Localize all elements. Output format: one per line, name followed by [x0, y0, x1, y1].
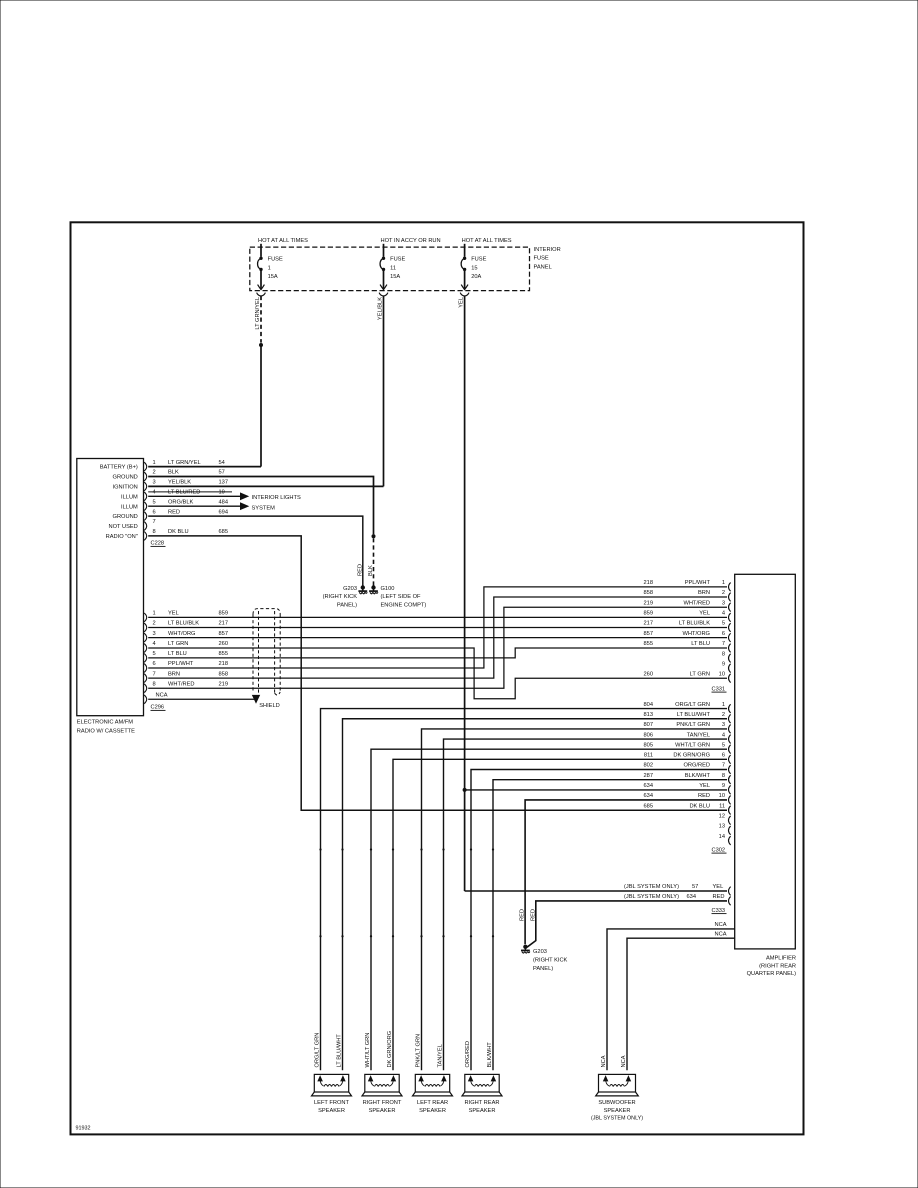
- svg-text:9: 9: [722, 661, 725, 667]
- svg-text:685: 685: [219, 529, 229, 535]
- svg-text:AMPLIFIER: AMPLIFIER: [766, 956, 796, 962]
- wire pin3 YEL/BLK 137: [148, 485, 383, 487]
- svg-text:813: 813: [644, 712, 654, 718]
- svg-text:484: 484: [219, 499, 229, 505]
- svg-text:8: 8: [722, 773, 725, 779]
- radio C228 pin 5: [144, 499, 228, 510]
- connector label C302: [712, 847, 727, 853]
- svg-text:(JBL SYSTEM ONLY): (JBL SYSTEM ONLY): [624, 884, 679, 890]
- svg-text:LT GRN: LT GRN: [690, 671, 710, 677]
- wire 807 PNK/LT GRN to left rear speaker +: [422, 729, 728, 1070]
- svg-text:15A: 15A: [268, 274, 278, 280]
- svg-text:RIGHT REAR: RIGHT REAR: [465, 1100, 500, 1106]
- svg-text:7: 7: [153, 671, 156, 677]
- connector label C331: [712, 686, 727, 692]
- svg-text:217: 217: [644, 621, 654, 627]
- svg-text:634: 634: [687, 894, 697, 900]
- svg-text:20A: 20A: [471, 274, 481, 280]
- svg-text:11: 11: [719, 803, 725, 809]
- amp C302 pin 3: [644, 722, 731, 733]
- svg-text:QUARTER PANEL): QUARTER PANEL): [747, 971, 797, 977]
- svg-text:11: 11: [390, 265, 396, 271]
- wire NCA to subwoofer +: [607, 929, 735, 1070]
- right front speaker: [362, 1071, 402, 1096]
- svg-text:C296: C296: [151, 705, 165, 711]
- svg-text:C302: C302: [712, 847, 726, 853]
- svg-text:855: 855: [644, 641, 654, 647]
- svg-text:57: 57: [219, 470, 225, 476]
- svg-text:4: 4: [722, 611, 725, 617]
- svg-text:HOT AT ALL TIMES: HOT AT ALL TIMES: [258, 238, 308, 244]
- svg-text:1: 1: [153, 611, 156, 617]
- ground G100: [369, 585, 378, 594]
- amp C302 pin 9: [644, 783, 731, 794]
- svg-text:6: 6: [722, 753, 725, 759]
- svg-text:260: 260: [219, 641, 229, 647]
- svg-text:7: 7: [722, 641, 725, 647]
- interior lights system label: [252, 495, 302, 511]
- amp C302 pin 5: [644, 742, 731, 753]
- amp C302 pin 12: [719, 813, 731, 824]
- wire 811 DK GRN/ORG to right front speaker -: [393, 759, 727, 1070]
- svg-text:ORG/LT GRN: ORG/LT GRN: [675, 702, 710, 708]
- svg-text:2: 2: [153, 470, 156, 476]
- wire pin5 ORG/BLK 484: [148, 503, 248, 509]
- svg-text:(JBL SYSTEM ONLY): (JBL SYSTEM ONLY): [624, 894, 679, 900]
- svg-text:LT GRN: LT GRN: [168, 641, 188, 647]
- svg-text:ILLUM: ILLUM: [121, 494, 138, 500]
- splice YEL to amp C302 pin 9: [463, 788, 467, 792]
- svg-text:SYSTEM: SYSTEM: [252, 505, 276, 511]
- svg-text:GROUND: GROUND: [113, 475, 138, 481]
- svg-text:218: 218: [219, 661, 229, 667]
- svg-text:RED: RED: [530, 909, 536, 921]
- amp C321 pin 6: [644, 631, 731, 642]
- svg-text:RED: RED: [698, 793, 710, 799]
- svg-text:ENGINE COMPT): ENGINE COMPT): [381, 603, 427, 609]
- svg-text:SHIELD: SHIELD: [259, 703, 280, 709]
- svg-text:634: 634: [644, 793, 654, 799]
- svg-text:ORG/LT GRN: ORG/LT GRN: [315, 1033, 321, 1068]
- wire NCA to shield: [148, 698, 256, 700]
- svg-text:7: 7: [153, 519, 156, 525]
- svg-text:12: 12: [719, 813, 725, 819]
- svg-text:137: 137: [219, 480, 229, 486]
- svg-text:FUSE: FUSE: [268, 257, 283, 263]
- svg-text:8: 8: [153, 681, 156, 687]
- svg-text:(LEFT SIDE OF: (LEFT SIDE OF: [381, 594, 422, 600]
- amp C333 pin YEL (JBL SYSTEM ONLY): [624, 884, 731, 895]
- svg-text:6: 6: [153, 509, 156, 515]
- svg-text:3: 3: [153, 631, 156, 637]
- svg-text:RIGHT FRONT: RIGHT FRONT: [363, 1100, 402, 1106]
- svg-text:LT BLU: LT BLU: [691, 641, 710, 647]
- wire 857 WHT/ORG radio3 to amp C321-6: [148, 637, 727, 639]
- svg-text:685: 685: [644, 803, 654, 809]
- svg-text:RADIO "ON": RADIO "ON": [106, 534, 138, 540]
- svg-text:LT GRN/YEL: LT GRN/YEL: [168, 460, 201, 466]
- svg-text:SPEAKER: SPEAKER: [369, 1108, 396, 1114]
- svg-text:5: 5: [153, 499, 156, 505]
- svg-text:1: 1: [722, 702, 725, 708]
- svg-text:WHT/LT GRN: WHT/LT GRN: [675, 742, 710, 748]
- connector label C333: [712, 908, 727, 914]
- svg-text:1: 1: [722, 580, 725, 586]
- svg-text:NCA: NCA: [601, 1055, 607, 1067]
- svg-text:YEL: YEL: [458, 297, 464, 308]
- svg-text:3: 3: [722, 722, 725, 728]
- radio label: [77, 720, 135, 735]
- svg-text:7: 7: [722, 763, 725, 769]
- svg-text:BLK/WHT: BLK/WHT: [685, 773, 711, 779]
- svg-text:54: 54: [219, 460, 225, 466]
- svg-text:DK GRN/ORG: DK GRN/ORG: [673, 753, 710, 759]
- wire 859 YEL radio1 to amp C321-4: [148, 616, 727, 618]
- amp C321 pin 3: [644, 600, 731, 611]
- svg-text:14: 14: [719, 834, 725, 840]
- svg-text:857: 857: [644, 631, 654, 637]
- wire NCA to subwoofer -: [627, 938, 735, 1070]
- svg-text:91932: 91932: [76, 1126, 91, 1132]
- svg-text:LEFT REAR: LEFT REAR: [417, 1100, 448, 1106]
- wire 634 RED amp C333 to G203: [527, 901, 727, 947]
- radio C228 pin 7: [144, 519, 155, 530]
- wire 634 YEL splice to amp C302 pin 9: [465, 789, 727, 791]
- svg-text:NCA: NCA: [714, 932, 726, 938]
- svg-text:5: 5: [722, 742, 725, 748]
- svg-text:GROUND: GROUND: [113, 514, 138, 520]
- svg-text:PANEL: PANEL: [534, 264, 552, 270]
- svg-text:NCA: NCA: [621, 1055, 627, 1067]
- splice on BLK: [372, 534, 376, 538]
- svg-text:(RIGHT KICK: (RIGHT KICK: [323, 594, 358, 600]
- ground G203 top: [358, 585, 367, 594]
- svg-text:BLK: BLK: [168, 470, 179, 476]
- amp C321 pin 10: [644, 671, 731, 682]
- wire pin2 BLK 57: [148, 477, 373, 535]
- amp C321 pin 5: [644, 621, 731, 632]
- wire LT GRN/YEL dashed segment from fuse 1: [260, 296, 262, 343]
- svg-text:287: 287: [644, 773, 654, 779]
- svg-text:C331: C331: [712, 686, 726, 692]
- amp C321 pin 1: [644, 580, 731, 591]
- left rear speaker: [413, 1071, 453, 1096]
- svg-text:LT BLU/RED: LT BLU/RED: [168, 490, 200, 496]
- wire BLK dashed to G100: [373, 538, 375, 585]
- svg-text:858: 858: [219, 671, 229, 677]
- wire pin8 DK BLU 685 to amp C302 pin 11: [148, 536, 727, 810]
- radio C228 pin 6: [144, 509, 228, 520]
- inline connector marks on speaker wires: [319, 848, 494, 937]
- wire 287 BLK/WHT to right rear speaker -: [493, 780, 727, 1071]
- connector label C228: [151, 541, 166, 547]
- radio C296 pin 1: [144, 611, 228, 622]
- radio C296 pin 2: [144, 621, 228, 632]
- svg-text:ELECTRONIC AM/FM: ELECTRONIC AM/FM: [77, 720, 134, 726]
- connector label C296: [151, 705, 166, 711]
- amp C321 pin 2: [644, 590, 731, 601]
- wire pin1 LT GRN/YEL 54: [148, 466, 261, 468]
- svg-text:6: 6: [153, 661, 156, 667]
- svg-text:RED: RED: [168, 509, 180, 515]
- amp C302 pin 8: [644, 773, 731, 784]
- svg-text:LT BLU/BLK: LT BLU/BLK: [168, 621, 199, 627]
- svg-text:PANEL): PANEL): [337, 603, 357, 609]
- wire 806 TAN/YEL to left rear speaker -: [444, 739, 728, 1070]
- fuse 15 20A: [460, 244, 486, 296]
- radio C296 pin 6: [144, 661, 228, 672]
- amp C321 pin 4: [644, 611, 731, 622]
- wire 218 PPL/WHT radio6 to amp C321-1: [148, 587, 727, 668]
- svg-text:WHT/LT GRN: WHT/LT GRN: [365, 1033, 371, 1068]
- svg-text:NCA: NCA: [156, 692, 168, 698]
- wire pin4 LT BLU/RED 19: [148, 493, 248, 499]
- svg-text:LT BLU/WHT: LT BLU/WHT: [677, 712, 711, 718]
- amp C302 pin 1: [644, 702, 731, 713]
- svg-text:NOT USED: NOT USED: [109, 524, 138, 530]
- svg-text:217: 217: [219, 621, 229, 627]
- svg-text:807: 807: [644, 722, 654, 728]
- svg-text:RED: RED: [520, 909, 526, 921]
- svg-text:LT BLU/BLK: LT BLU/BLK: [679, 621, 710, 627]
- svg-text:WHT/RED: WHT/RED: [683, 600, 710, 606]
- amplifier label: [747, 956, 797, 978]
- svg-text:219: 219: [219, 681, 229, 687]
- radio C296 pin 7: [144, 671, 228, 682]
- amp C302 pin 2: [644, 712, 731, 723]
- svg-text:3: 3: [153, 480, 156, 486]
- svg-text:13: 13: [719, 824, 725, 830]
- svg-text:858: 858: [644, 590, 654, 596]
- svg-text:FUSE: FUSE: [471, 257, 486, 263]
- svg-text:4: 4: [153, 641, 156, 647]
- svg-text:INTERIOR: INTERIOR: [534, 247, 561, 253]
- svg-text:2: 2: [153, 621, 156, 627]
- svg-text:4: 4: [153, 490, 156, 496]
- wire 219 WHT/RED radio8 to amp C321-3: [148, 607, 727, 688]
- wire LT GRN/YEL 54 down to radio pin 1: [260, 345, 262, 467]
- amp C302 pin 7: [644, 763, 731, 774]
- amp C302 pin 13: [719, 824, 731, 835]
- label G203 (RIGHT KICK PANEL): [323, 586, 358, 609]
- svg-text:859: 859: [644, 611, 654, 617]
- fuse 11 15A: [379, 244, 405, 296]
- amp C321 pin 7: [644, 641, 731, 652]
- svg-text:219: 219: [644, 600, 654, 606]
- svg-text:805: 805: [644, 742, 654, 748]
- svg-text:PNK/LT GRN: PNK/LT GRN: [416, 1034, 422, 1068]
- svg-text:5: 5: [153, 651, 156, 657]
- svg-text:2: 2: [722, 590, 725, 596]
- svg-text:LT BLU: LT BLU: [168, 651, 187, 657]
- svg-text:BRN: BRN: [698, 590, 710, 596]
- left front speaker: [312, 1071, 352, 1096]
- interior fuse panel label: [534, 247, 561, 271]
- wire 804 ORG/LT GRN to left front speaker +: [321, 709, 728, 1071]
- svg-text:ORG/BLK: ORG/BLK: [168, 499, 193, 505]
- svg-text:WHT/ORG: WHT/ORG: [168, 631, 196, 637]
- svg-text:SUBWOOFER: SUBWOOFER: [598, 1100, 635, 1106]
- svg-text:DK BLU: DK BLU: [689, 803, 710, 809]
- svg-text:YEL/BLK: YEL/BLK: [168, 480, 191, 486]
- radio C296 pin NCA: [144, 692, 168, 703]
- svg-text:YEL: YEL: [699, 783, 710, 789]
- svg-text:WHT/RED: WHT/RED: [168, 681, 195, 687]
- amp C321 pin 8: [722, 651, 731, 662]
- amp C302 pin 11: [644, 803, 731, 814]
- svg-text:RED: RED: [713, 894, 725, 900]
- svg-text:694: 694: [219, 509, 229, 515]
- amplifier box: [735, 574, 796, 949]
- amp C302 pin 14: [719, 834, 731, 845]
- amp C333 pin RED (JBL SYSTEM ONLY): [624, 894, 731, 905]
- svg-text:RED: RED: [358, 564, 364, 576]
- svg-text:FUSE: FUSE: [390, 257, 405, 263]
- radio C228 pin 1: [144, 460, 225, 471]
- svg-text:YEL: YEL: [168, 611, 179, 617]
- svg-text:SPEAKER: SPEAKER: [469, 1108, 496, 1114]
- svg-text:LEFT FRONT: LEFT FRONT: [314, 1100, 349, 1106]
- subwoofer speaker: [596, 1071, 639, 1096]
- wire 855 LT BLU radio5 to amp C321-7: [148, 648, 727, 658]
- svg-text:RADIO W/ CASSETTE: RADIO W/ CASSETTE: [77, 729, 135, 735]
- svg-text:BLK: BLK: [368, 565, 374, 576]
- interior fuse panel box: [250, 247, 530, 291]
- svg-text:TAN/YEL: TAN/YEL: [438, 1044, 444, 1067]
- svg-text:5: 5: [722, 621, 725, 627]
- svg-text:SPEAKER: SPEAKER: [604, 1108, 631, 1114]
- wire 217 LT BLU/BLK radio2 to amp C321-5: [148, 627, 727, 629]
- shield symbol: [253, 609, 281, 709]
- svg-text:C333: C333: [712, 908, 726, 914]
- svg-text:SPEAKER: SPEAKER: [318, 1108, 345, 1114]
- svg-text:INTERIOR LIGHTS: INTERIOR LIGHTS: [252, 495, 302, 501]
- svg-text:YEL: YEL: [699, 611, 710, 617]
- radio C228 function labels: [100, 465, 138, 540]
- radio C228 pin 8: [144, 529, 228, 540]
- svg-text:802: 802: [644, 763, 654, 769]
- svg-text:57: 57: [692, 884, 698, 890]
- ground G203 bottom: [521, 945, 530, 954]
- svg-text:218: 218: [644, 580, 654, 586]
- label G100 (LEFT SIDE OF ENGINE COMPT): [381, 586, 427, 609]
- svg-text:15A: 15A: [390, 274, 400, 280]
- svg-text:WHT/ORG: WHT/ORG: [683, 631, 711, 637]
- amp C302 pin 10: [644, 793, 731, 804]
- svg-text:(RIGHT REAR: (RIGHT REAR: [759, 963, 796, 969]
- svg-text:855: 855: [219, 651, 229, 657]
- wire YEL from fuse 15 down to amp C333: [464, 296, 466, 891]
- svg-text:ORG/RED: ORG/RED: [683, 763, 710, 769]
- svg-text:(RIGHT KICK: (RIGHT KICK: [533, 957, 568, 963]
- svg-text:G100: G100: [381, 586, 395, 592]
- radio C296 pin 8: [144, 681, 228, 692]
- svg-text:1: 1: [153, 460, 156, 466]
- svg-text:15: 15: [471, 265, 477, 271]
- svg-text:TAN/YEL: TAN/YEL: [687, 732, 710, 738]
- svg-text:YEL/BLK: YEL/BLK: [377, 297, 383, 320]
- svg-text:(JBL SYSTEM ONLY): (JBL SYSTEM ONLY): [591, 1116, 643, 1122]
- svg-text:ORG/RED: ORG/RED: [465, 1041, 471, 1068]
- wire 57 YEL (JBL): [465, 890, 727, 892]
- svg-text:FUSE: FUSE: [534, 256, 549, 262]
- wire 802 ORG/RED to right rear speaker +: [471, 770, 727, 1071]
- svg-text:10: 10: [719, 671, 725, 677]
- strikeout line over pin 4 text: [148, 491, 232, 493]
- radio C296 pin 4: [144, 641, 228, 652]
- radio box: [77, 459, 144, 716]
- radio C296 pin 3: [144, 631, 228, 642]
- svg-text:NCA: NCA: [714, 922, 726, 928]
- svg-text:8: 8: [153, 529, 156, 535]
- wire 813 LT BLU/WHT to left front speaker -: [343, 719, 728, 1070]
- svg-text:260: 260: [644, 671, 654, 677]
- svg-text:SPEAKER: SPEAKER: [419, 1108, 446, 1114]
- svg-text:859: 859: [219, 611, 229, 617]
- svg-text:4: 4: [722, 732, 725, 738]
- radio C228 pin 4: [144, 490, 225, 501]
- svg-text:HOT IN ACCY OR RUN: HOT IN ACCY OR RUN: [381, 238, 441, 244]
- svg-text:9: 9: [722, 783, 725, 789]
- svg-text:6: 6: [722, 631, 725, 637]
- radio C228 pin 2: [144, 470, 225, 481]
- svg-text:804: 804: [644, 702, 654, 708]
- svg-text:1: 1: [268, 265, 271, 271]
- svg-text:634: 634: [644, 783, 654, 789]
- svg-text:DK BLU: DK BLU: [168, 529, 189, 535]
- svg-text:19: 19: [219, 490, 225, 496]
- svg-text:BLK/WHT: BLK/WHT: [487, 1042, 493, 1068]
- amp C321 pin 9: [722, 661, 731, 672]
- wire pin6 RED 694 to G203: [148, 516, 363, 586]
- label G203 (RIGHT KICK PANEL) bottom: [533, 949, 568, 972]
- svg-text:PANEL): PANEL): [533, 966, 553, 972]
- svg-text:BRN: BRN: [168, 671, 180, 677]
- svg-text:LT GRN/YEL: LT GRN/YEL: [255, 297, 261, 330]
- svg-text:C228: C228: [151, 541, 165, 547]
- right rear speaker: [462, 1071, 502, 1096]
- wire 805 WHT/LT GRN to right front speaker +: [371, 749, 727, 1070]
- svg-text:857: 857: [219, 631, 229, 637]
- svg-text:IGNITION: IGNITION: [113, 485, 138, 491]
- wire 858 BRN radio7 to amp C321-2: [148, 597, 727, 678]
- radio C296 pin 5: [144, 651, 228, 662]
- svg-text:PPL/WHT: PPL/WHT: [685, 580, 711, 586]
- svg-text:HOT AT ALL TIMES: HOT AT ALL TIMES: [462, 238, 512, 244]
- svg-text:806: 806: [644, 732, 654, 738]
- svg-text:811: 811: [644, 753, 653, 759]
- wire YEL/BLK 137 from fuse 11 down to radio pin 3: [383, 296, 385, 487]
- wire 634 RED amp C302 pin 10 to G203: [525, 800, 727, 944]
- wire 260 LT GRN radio4 to amp C321-10: [148, 648, 727, 699]
- svg-text:DK GRN/ORG: DK GRN/ORG: [387, 1031, 393, 1068]
- svg-text:G203: G203: [533, 949, 547, 955]
- svg-text:2: 2: [722, 712, 725, 718]
- amp C302 pin 6: [644, 753, 731, 764]
- svg-text:YEL: YEL: [713, 884, 724, 890]
- svg-text:PNK/LT GRN: PNK/LT GRN: [676, 722, 710, 728]
- svg-text:G203: G203: [343, 586, 357, 592]
- svg-text:LT BLU/WHT: LT BLU/WHT: [337, 1034, 343, 1068]
- svg-text:ILLUM: ILLUM: [121, 504, 138, 510]
- svg-text:BATTERY (B+): BATTERY (B+): [100, 465, 138, 471]
- splice on LT GRN/YEL: [259, 343, 263, 347]
- svg-text:3: 3: [722, 600, 725, 606]
- svg-text:8: 8: [722, 651, 725, 657]
- amp C302 pin 4: [644, 732, 731, 743]
- page border frame: [71, 222, 804, 1134]
- fuse 1 15A: [257, 244, 283, 296]
